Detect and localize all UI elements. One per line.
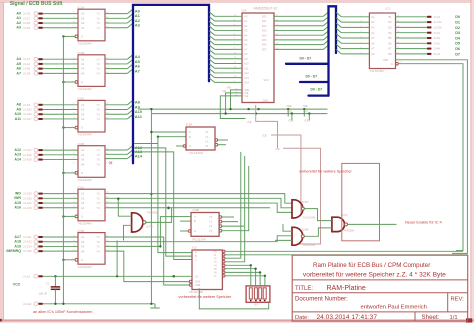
svg-text:A12: A12 xyxy=(244,72,249,75)
wire IC5B Y3 xyxy=(222,166,249,231)
no-connect cross IC2B Y4 xyxy=(109,161,112,164)
connector stub D3 xyxy=(427,32,431,34)
junction A16 line xyxy=(167,207,169,209)
connector pin circle J1-A22 xyxy=(34,201,38,205)
svg-text:A: A xyxy=(194,215,196,219)
svg-text:J1-C3: J1-C3 xyxy=(433,53,440,56)
svg-text:vorbereitet für weitere Speich: vorbereitet für weitere Speicher z.Z. 4 … xyxy=(303,272,446,279)
wire buffer output A12 to address bus xyxy=(105,149,127,151)
svg-text:A8: A8 xyxy=(16,103,21,107)
svg-text:I/O3: I/O3 xyxy=(262,30,267,33)
svg-text:Y3: Y3 xyxy=(209,229,213,233)
address bus A0-A14 xyxy=(133,5,209,163)
svg-text:Y4: Y4 xyxy=(97,117,101,121)
connector pin circle J1-C17 xyxy=(34,117,38,121)
svg-text:Y4: Y4 xyxy=(97,206,101,210)
svg-text:74LS244N: 74LS244N xyxy=(78,87,92,91)
wire /WE branch down 1 xyxy=(287,109,289,116)
wire buffer output A2 to address bus xyxy=(105,22,127,24)
wire IC5 Y2 xyxy=(225,152,241,258)
pin numbers IC2 xyxy=(361,15,403,64)
wire A10 to buffer xyxy=(43,113,78,115)
wire /WR long horizontal xyxy=(105,198,292,207)
svg-text:/CE: /CE xyxy=(304,119,309,123)
svg-text:A: A xyxy=(195,251,197,255)
wire bus ripper A4 to RAM xyxy=(209,31,214,35)
svg-text:IC3B: IC3B xyxy=(78,229,85,233)
wire JP1 ground loop xyxy=(199,288,268,309)
enable wire G IC3A xyxy=(63,215,75,217)
svg-text:J1-C28: J1-C28 xyxy=(23,192,32,196)
svg-text:Y1: Y1 xyxy=(205,135,209,139)
wire A7 to buffer xyxy=(43,72,78,74)
svg-text:/WE: /WE xyxy=(227,87,232,90)
wire /WE branch down 2 xyxy=(303,109,305,116)
wire data bus to IC2 pin A7 xyxy=(336,44,341,48)
svg-text:Y2: Y2 xyxy=(209,224,213,228)
svg-text:74LS139N: 74LS139N xyxy=(189,151,203,155)
svg-text:J1-A5: J1-A5 xyxy=(23,21,31,25)
svg-text:IC2: IC2 xyxy=(386,7,391,11)
svg-text:74S02N: 74S02N xyxy=(343,228,354,232)
svg-text:A4: A4 xyxy=(81,71,85,75)
svg-text:J1-C14: J1-C14 xyxy=(23,244,32,248)
svg-text:/WE: /WE xyxy=(303,104,308,108)
svg-text:J1-C5: J1-C5 xyxy=(23,12,31,16)
wire IC5 Y4 to JP1 pin 1 xyxy=(225,264,251,266)
wire buffer output A1 to address bus xyxy=(105,17,127,19)
svg-text:Ram Platine für ECB Bus / CPM: Ram Platine für ECB Bus / CPM Computer xyxy=(313,262,430,269)
wire IC2 B4 to connector xyxy=(396,32,428,34)
wire A18 to IC6B input 2 xyxy=(105,236,292,242)
wire /RD long horizontal xyxy=(105,194,292,204)
wire open /CE L-path 3 xyxy=(283,148,321,244)
svg-text:IC4: IC4 xyxy=(242,9,247,13)
svg-text:J1-C9: J1-C9 xyxy=(23,26,31,30)
connector pin circle J1-A7 xyxy=(34,57,38,61)
connector stub GND xyxy=(38,303,42,305)
connector stub A9 xyxy=(38,109,42,111)
svg-text:J1-C7: J1-C7 xyxy=(23,16,31,20)
wire RAM /OE xyxy=(226,93,242,114)
svg-text:Document Number:: Document Number: xyxy=(295,296,348,303)
svg-text:vorbereitet für weitere Speich: vorbereitet für weitere Speicher xyxy=(299,170,352,174)
svg-text:A4: A4 xyxy=(81,249,85,253)
svg-text:IC5A: IC5A xyxy=(186,123,193,127)
svg-text:A3: A3 xyxy=(81,67,85,71)
svg-text:A4: A4 xyxy=(81,206,85,210)
wire data bus to IC2 pin A4 xyxy=(336,28,341,32)
connector pin circle J1-C32 xyxy=(34,249,38,253)
wire buffer output A7 to address bus xyxy=(105,72,127,74)
wire bus ripper A3 to RAM xyxy=(209,26,214,30)
svg-text:A4: A4 xyxy=(81,26,85,30)
wire buffer output A11 to address bus xyxy=(105,118,127,120)
connector stub A3 xyxy=(38,27,42,29)
wire IC5B G xyxy=(180,230,188,232)
wire RAM I/O3 to data bus xyxy=(274,29,323,31)
junction A19 xyxy=(159,245,161,247)
svg-text:A2: A2 xyxy=(81,108,85,112)
svg-text:JP1: JP1 xyxy=(254,303,259,307)
connector stub D2 xyxy=(427,26,431,28)
svg-text:Y3: Y3 xyxy=(97,67,101,71)
wire RAM I/O0 to data bus xyxy=(274,15,323,17)
svg-text:A0: A0 xyxy=(16,12,21,16)
wire IC5B Y2 xyxy=(222,225,244,227)
connector stub A15 xyxy=(38,202,42,204)
connector stub D4 xyxy=(427,37,431,39)
pin numbers IC3B xyxy=(72,235,110,260)
svg-text:I/O2: I/O2 xyxy=(262,25,267,28)
wire A16 to buffer xyxy=(43,207,78,209)
wire /WR to buffer xyxy=(43,197,78,199)
svg-text:J1-C10: J1-C10 xyxy=(23,112,32,116)
junction /OE line xyxy=(291,112,293,114)
svg-text:A11: A11 xyxy=(135,114,143,119)
svg-text:Y1: Y1 xyxy=(97,235,101,239)
wire IC6B input 3 xyxy=(275,239,292,241)
svg-text:J1-A28: J1-A28 xyxy=(23,158,32,162)
svg-text:74S02N: 74S02N xyxy=(147,211,158,215)
wire data bus to IC2 pin A5 xyxy=(336,34,341,38)
svg-text:Y2: Y2 xyxy=(97,16,101,20)
buffer IC2A 74LS244 xyxy=(75,97,105,137)
svg-text:A11: A11 xyxy=(15,117,21,121)
wire RAM /WE xyxy=(231,90,243,109)
wire IC6C output to IC7A xyxy=(304,209,332,221)
title block xyxy=(292,255,468,321)
svg-text:Y1: Y1 xyxy=(97,12,101,16)
svg-text:A14: A14 xyxy=(244,81,249,84)
connector stub A11 xyxy=(38,118,42,120)
wire IC5 Y7 to JP1 pin 4 xyxy=(225,275,265,277)
buffer IC3A 74LS244 xyxy=(75,185,105,225)
svg-text:Date:: Date: xyxy=(295,315,309,321)
wire RAM /CE xyxy=(220,96,245,119)
wire RAM I/O6 to data bus xyxy=(274,44,323,46)
svg-text:A12: A12 xyxy=(14,148,21,152)
svg-text:A4: A4 xyxy=(81,162,85,166)
frame bottom bar xyxy=(0,319,474,321)
svg-text:Y2: Y2 xyxy=(205,140,209,144)
svg-text:A1: A1 xyxy=(81,148,85,152)
svg-text:/OE: /OE xyxy=(222,90,227,93)
connector pin circle J1-C9 xyxy=(34,26,38,30)
svg-text:J1-A6: J1-A6 xyxy=(433,37,440,40)
wire buffer output A13 to address bus xyxy=(105,153,127,155)
wire IC5 Y5 to JP1 pin 2 xyxy=(225,268,256,270)
svg-text:J1-A9: J1-A9 xyxy=(23,67,31,71)
connector stub A18 xyxy=(38,241,42,243)
junction /WE line xyxy=(287,108,289,110)
svg-text:J1-C15: J1-C15 xyxy=(23,206,32,210)
svg-text:Y0: Y0 xyxy=(205,130,209,134)
enable wire G IC1B xyxy=(63,81,75,83)
connector stub /RD xyxy=(38,193,42,195)
wire data bus to IC2 pin A2 xyxy=(336,18,341,22)
svg-text:DIR: DIR xyxy=(384,59,389,62)
svg-text:74LS10N: 74LS10N xyxy=(303,215,316,219)
svg-text:74LS10N: 74LS10N xyxy=(303,243,316,247)
data bus stub 1 xyxy=(286,63,329,65)
svg-text:G: G xyxy=(81,258,83,262)
wire buffer output A14 to address bus xyxy=(105,158,127,160)
svg-text:J1-A7: J1-A7 xyxy=(23,57,31,61)
connector stub A1 xyxy=(38,17,42,19)
svg-text:A3: A3 xyxy=(81,21,85,25)
svg-text:D0 - D7: D0 - D7 xyxy=(306,75,318,79)
connector pin circle J1-C8 xyxy=(34,71,38,75)
svg-text:A3: A3 xyxy=(81,245,85,249)
wire bus ripper A10 to RAM xyxy=(209,59,214,63)
svg-text:A14: A14 xyxy=(135,154,143,159)
connector pin circle J1-A5 xyxy=(34,21,38,25)
connector stub A4 xyxy=(38,58,42,60)
wire A8 to buffer xyxy=(43,104,78,106)
wire A12 from bus to IC5 region xyxy=(134,144,192,253)
svg-text:I/O0: I/O0 xyxy=(262,15,267,18)
wire IC5B input B stub xyxy=(180,220,191,222)
svg-text:IC5B: IC5B xyxy=(193,208,200,212)
ground symbol xyxy=(150,304,160,308)
wire bus ripper A8 to RAM xyxy=(209,50,214,54)
svg-text:Y4: Y4 xyxy=(97,249,101,253)
wire buffer output A9 to address bus xyxy=(105,109,127,111)
capacitor C1 xyxy=(39,276,61,304)
svg-text:J1-A12: J1-A12 xyxy=(23,240,32,244)
wire IC2 DIR to IC5 Y1 (right edge loop) xyxy=(396,60,468,254)
wire bus ripper A5 to RAM xyxy=(209,36,214,40)
svg-text:A3: A3 xyxy=(16,26,21,30)
wire IC7B output xyxy=(146,208,172,222)
svg-text:A5: A5 xyxy=(16,62,21,66)
svg-text:74LS244N: 74LS244N xyxy=(78,178,92,182)
wire IC6B output to IC7A xyxy=(304,228,332,236)
junction /OE line xyxy=(224,112,226,114)
wire A19 route to IC5B A xyxy=(105,217,175,247)
svg-text:Signal / ECB BUS Stift: Signal / ECB BUS Stift xyxy=(10,1,63,7)
svg-text:G1: G1 xyxy=(195,274,199,278)
svg-text:IC6B: IC6B xyxy=(302,227,309,231)
svg-text:VCC: VCC xyxy=(13,283,21,287)
svg-text:Y1: Y1 xyxy=(97,192,101,196)
wire bus ripper A6 to RAM xyxy=(209,40,214,44)
wire net /OE horizontal xyxy=(151,113,327,115)
gate IC7B 74S02 xyxy=(132,211,158,232)
wire data bus to IC2 pin A1 xyxy=(336,12,341,16)
gate IC6C 74LS10 xyxy=(292,200,315,220)
svg-text:D7: D7 xyxy=(455,52,460,56)
connector pin circle J1-C28 xyxy=(34,192,38,196)
svg-text:IC1B: IC1B xyxy=(78,51,85,55)
svg-text:Y3: Y3 xyxy=(97,158,101,162)
wire /MEMRQ to buffer xyxy=(43,250,78,252)
svg-text:G: G xyxy=(189,144,191,148)
svg-text:A7: A7 xyxy=(16,71,21,75)
svg-text:HM62256LP-10: HM62256LP-10 xyxy=(254,7,278,11)
data bus D0-D7 main loop xyxy=(329,6,337,95)
wire bus ripper A0 to RAM xyxy=(209,12,214,16)
wire IC2 B8 to connector xyxy=(396,53,428,55)
wire A1 to buffer xyxy=(43,17,78,19)
buffer IC1A 74LS244 xyxy=(75,5,105,45)
svg-text:J1-C9: J1-C9 xyxy=(23,103,31,107)
pin numbers IC3A xyxy=(72,192,110,217)
enable vertical wire (G line) xyxy=(62,36,64,303)
svg-text:IC2B: IC2B xyxy=(78,142,85,146)
wire A17 to buffer xyxy=(43,236,78,238)
svg-text:Y3: Y3 xyxy=(205,144,209,148)
svg-text:Y2: Y2 xyxy=(97,62,101,66)
connector pin circle J1-C7 xyxy=(34,16,38,20)
wire /MEMRQ route to IC5 G2A xyxy=(105,251,189,282)
svg-text:/WR: /WR xyxy=(14,196,21,200)
svg-text:Y3: Y3 xyxy=(97,21,101,25)
svg-text:G: G xyxy=(194,229,196,233)
enable wire G IC2B xyxy=(63,172,75,174)
svg-text:J1-C26: J1-C26 xyxy=(433,27,442,30)
junction /WE line xyxy=(247,108,249,110)
RAM IC4 HM62256LP-10 xyxy=(242,7,278,103)
junction /WE line xyxy=(303,108,305,110)
svg-text:B: B xyxy=(195,254,197,258)
svg-text:A11: A11 xyxy=(244,67,249,70)
data bus stub 2 xyxy=(300,81,329,83)
wire A13 to buffer xyxy=(43,154,78,156)
connector pin circle J1-C30 xyxy=(34,196,38,200)
wire IC5A input B xyxy=(158,136,186,138)
svg-text:G: G xyxy=(391,63,393,66)
connector stub A2 xyxy=(38,22,42,24)
decoder IC5 74LS138 xyxy=(189,246,225,294)
junction GND rail xyxy=(54,303,56,305)
svg-text:A14: A14 xyxy=(14,157,21,161)
wire IC2 G to IC5 Y0 (right edge loop) xyxy=(398,64,463,251)
wire A2 to buffer xyxy=(43,22,78,24)
junction /WE line xyxy=(257,108,259,110)
svg-text:A: A xyxy=(189,130,191,134)
svg-text:A2: A2 xyxy=(81,153,85,157)
svg-text:REV:: REV: xyxy=(451,297,465,303)
wire IC2 B6 to connector xyxy=(396,42,428,44)
svg-text:A1: A1 xyxy=(16,16,21,20)
wire open /CE L-path 1 xyxy=(256,105,278,148)
svg-text:J1-A4: J1-A4 xyxy=(433,32,440,35)
connector stub A19 xyxy=(38,245,42,247)
svg-text:A1: A1 xyxy=(81,103,85,107)
svg-text:74LS244N: 74LS244N xyxy=(78,41,92,45)
connector pin circle J1-C14 xyxy=(34,245,38,249)
svg-text:G2B: G2B xyxy=(195,283,200,287)
svg-text:A4: A4 xyxy=(16,57,21,61)
svg-text:D3: D3 xyxy=(455,31,460,35)
connector stub D1 xyxy=(427,21,431,23)
connector pin circle J1-C5 xyxy=(34,12,38,16)
svg-text:J1-C27: J1-C27 xyxy=(23,148,32,152)
wire IC5B input A xyxy=(175,216,191,218)
wire IC2 B2 to connector xyxy=(396,21,428,23)
connector stub A0 xyxy=(38,13,42,15)
connector pin circle J1-C27 xyxy=(34,148,38,152)
decoder IC5B 74LS139 xyxy=(188,208,222,241)
svg-text:I/O6: I/O6 xyxy=(262,44,267,47)
enable wire G IC3B xyxy=(63,259,75,261)
wire IC5B Y1 xyxy=(222,221,238,223)
gate IC7A 74S02 xyxy=(332,213,354,232)
svg-text:A10: A10 xyxy=(14,112,21,116)
svg-text:A2: A2 xyxy=(81,240,85,244)
wire IC7B input 1 xyxy=(118,199,131,217)
svg-text:A13: A13 xyxy=(244,77,249,80)
connector stub /WR xyxy=(38,197,42,199)
wire buffer output A0 to address bus xyxy=(105,13,127,15)
svg-text:G: G xyxy=(81,215,83,219)
pin numbers IC2B xyxy=(72,149,110,174)
connector pin circle J1-A11 xyxy=(34,235,38,239)
svg-text:IC2A: IC2A xyxy=(78,97,85,101)
svg-text:/RD: /RD xyxy=(15,192,22,196)
svg-text:100 nF: 100 nF xyxy=(39,292,48,296)
wire A15 long horizontal xyxy=(105,203,292,212)
svg-text:A10: A10 xyxy=(244,63,249,66)
wire net /WE horizontal xyxy=(139,108,328,110)
svg-text:G: G xyxy=(81,80,83,84)
jumper connector JP1 xyxy=(246,286,270,307)
svg-text:Y4: Y4 xyxy=(97,162,101,166)
svg-text:G: G xyxy=(81,35,83,39)
svg-text:A2: A2 xyxy=(81,16,85,20)
gate IC6B 74LS10 xyxy=(292,227,315,247)
wire data bus to IC2 pin A3 xyxy=(336,23,341,27)
svg-text:A1: A1 xyxy=(81,12,85,16)
connector pin circle J1-C9 xyxy=(34,103,38,107)
svg-text:IC3A: IC3A xyxy=(78,185,85,189)
wire bus ripper A13 to RAM xyxy=(209,73,214,77)
wire A4 to buffer xyxy=(43,58,78,60)
wire data bus to IC2 pin A6 xyxy=(336,39,341,43)
svg-text:A7: A7 xyxy=(135,68,141,73)
svg-text:A3: A3 xyxy=(135,23,141,28)
wire RAM I/O1 to data bus xyxy=(274,20,323,22)
svg-text:I/O1: I/O1 xyxy=(262,20,267,23)
svg-text:I/O5: I/O5 xyxy=(262,39,267,42)
wire RAM I/O5 to data bus xyxy=(274,39,323,41)
svg-text:A4: A4 xyxy=(81,117,85,121)
buffer IC3B 74LS244 xyxy=(75,229,105,269)
wire IC2 B3 to connector xyxy=(396,26,428,28)
svg-text:Y0: Y0 xyxy=(209,215,213,219)
svg-text:Y3: Y3 xyxy=(97,201,101,205)
connector pin circle J1-A4 xyxy=(34,62,38,66)
svg-text:G: G xyxy=(81,171,83,175)
wire A14 from bus to IC5 region xyxy=(134,152,192,260)
svg-text:IC1A: IC1A xyxy=(78,5,85,9)
svg-text:B: B xyxy=(194,219,196,223)
svg-text:A2: A2 xyxy=(81,196,85,200)
svg-text:J1-C32: J1-C32 xyxy=(23,249,32,253)
buffer IC2B 74LS244 xyxy=(75,142,105,182)
connector stub A14 xyxy=(38,159,42,161)
frame left border xyxy=(0,0,3,323)
wire IC5A output Y3 xyxy=(218,144,226,146)
svg-text:/CE: /CE xyxy=(275,147,280,151)
wire A15 to buffer xyxy=(43,202,78,204)
connector stub A8 xyxy=(38,104,42,106)
junction GND vertical xyxy=(150,108,152,110)
junction VCC rail xyxy=(54,275,56,277)
svg-text:A3: A3 xyxy=(81,158,85,162)
